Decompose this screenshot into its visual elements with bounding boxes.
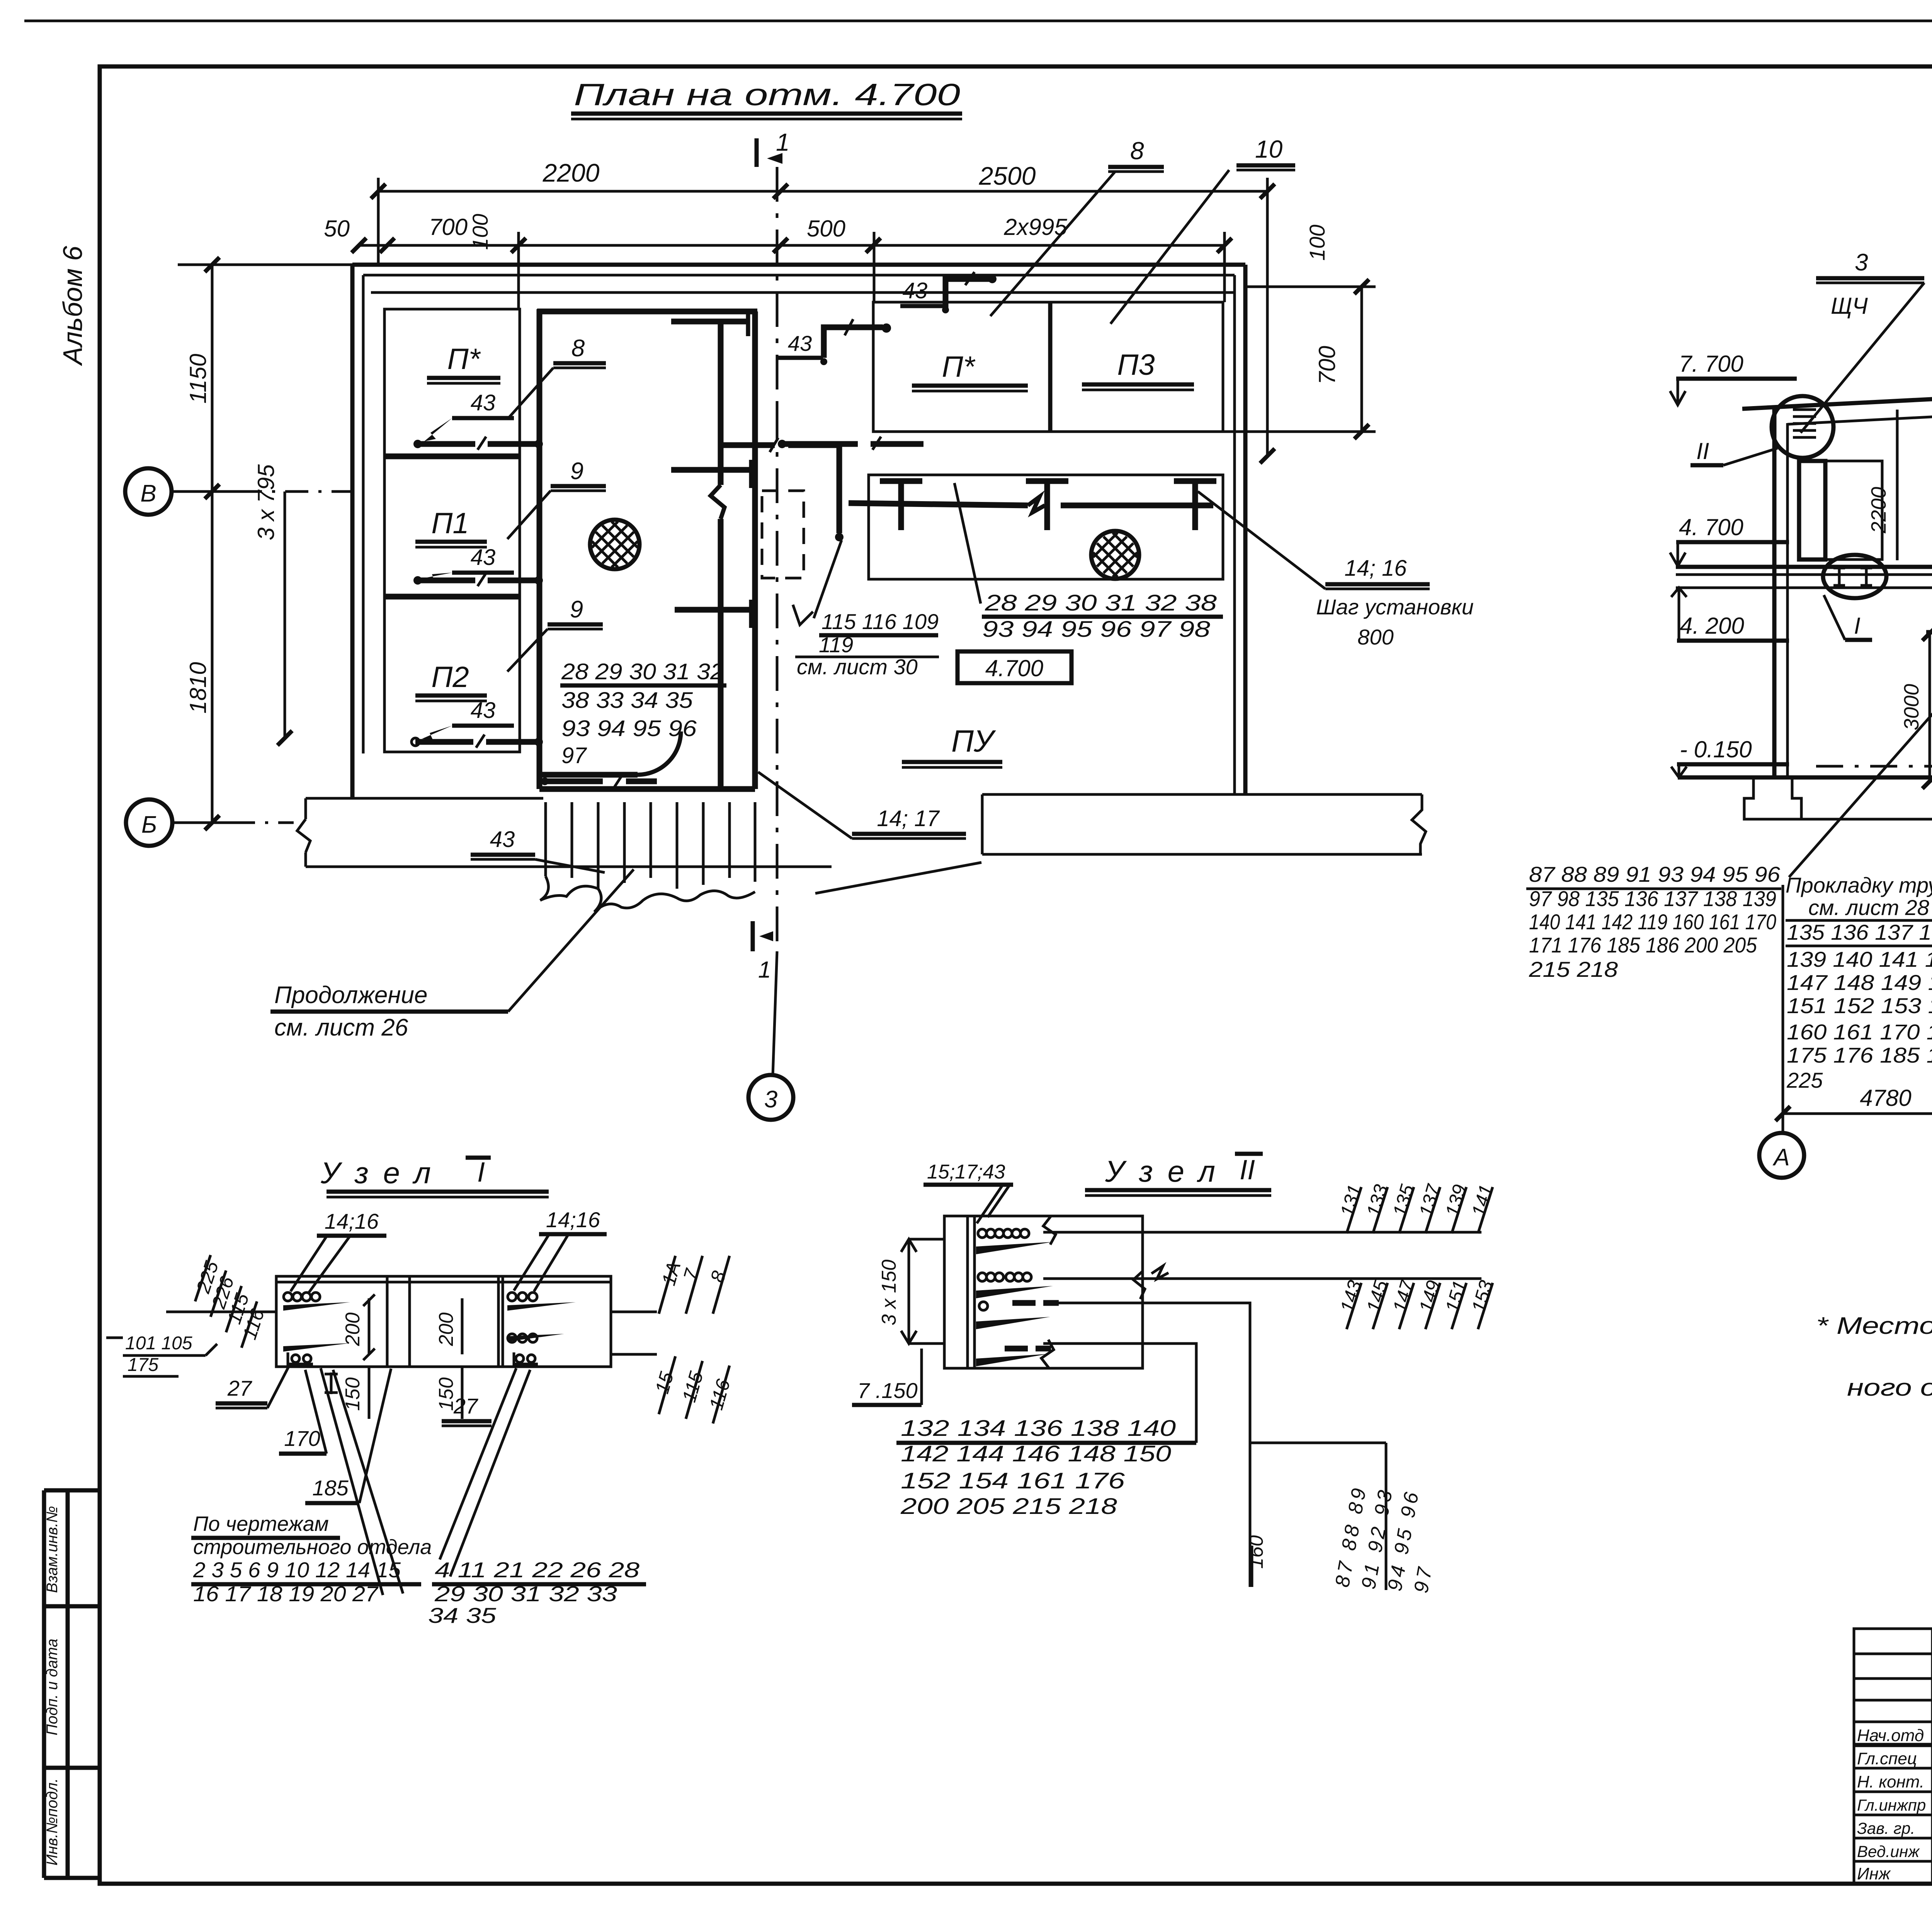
svg-text:строительного отдела: строительного отдела bbox=[193, 1536, 432, 1559]
svg-text:101 105: 101 105 bbox=[125, 1333, 192, 1354]
svg-text:200: 200 bbox=[342, 1313, 364, 1347]
svg-text:2200: 2200 bbox=[543, 158, 600, 187]
svg-text:43: 43 bbox=[471, 545, 496, 570]
svg-text:Взам.инв.№: Взам.инв.№ bbox=[44, 1506, 61, 1593]
svg-text:133: 133 bbox=[1362, 1182, 1392, 1219]
svg-text:см. лист 28: см. лист 28 bbox=[1808, 895, 1929, 920]
svg-text:140 141 142 119 160 161 17: 140 141 142 119 160 161 170 bbox=[1529, 910, 1776, 934]
svg-text:215 218: 215 218 bbox=[1529, 957, 1618, 981]
svg-text:2500: 2500 bbox=[979, 162, 1036, 190]
svg-text:Продолжение: Продолжение bbox=[274, 982, 427, 1009]
svg-text:П*: П* bbox=[447, 343, 481, 376]
svg-text:28 29 30 31 32 38: 28 29 30 31 32 38 bbox=[985, 590, 1217, 616]
svg-text:А: А bbox=[1772, 1144, 1789, 1171]
svg-text:8: 8 bbox=[1130, 137, 1144, 165]
svg-text:3: 3 bbox=[764, 1086, 777, 1113]
svg-text:ного оборудования (выпуски: ного оборудования (выпуски 1004, 1006, 1… bbox=[1847, 1374, 1932, 1401]
svg-text:7. 700: 7. 700 bbox=[1679, 351, 1743, 377]
svg-text:34 35: 34 35 bbox=[428, 1603, 497, 1628]
svg-text:Подп. и дата: Подп. и дата bbox=[44, 1639, 61, 1735]
svg-text:П1: П1 bbox=[431, 507, 469, 540]
svg-text:Узел: Узел bbox=[1105, 1154, 1215, 1188]
svg-text:II: II bbox=[1240, 1155, 1255, 1185]
svg-text:147: 147 bbox=[1389, 1277, 1418, 1315]
svg-text:43: 43 bbox=[903, 278, 928, 303]
svg-text:800: 800 bbox=[1357, 625, 1393, 649]
svg-text:Гл.спец: Гл.спец bbox=[1857, 1749, 1917, 1768]
svg-text:Узел: Узел bbox=[320, 1156, 431, 1190]
svg-text:100: 100 bbox=[468, 214, 492, 250]
svg-text:137: 137 bbox=[1415, 1181, 1445, 1219]
svg-text:14;16: 14;16 bbox=[546, 1207, 600, 1232]
svg-text:Гл.инжпр: Гл.инжпр bbox=[1857, 1796, 1926, 1814]
svg-text:Шаг установки: Шаг установки bbox=[1316, 595, 1474, 619]
svg-text:119: 119 bbox=[819, 633, 853, 657]
svg-text:142 144 146 148 150: 142 144 146 148 150 bbox=[901, 1441, 1171, 1466]
svg-text:97: 97 bbox=[561, 743, 587, 768]
svg-text:см. лист 26: см. лист 26 bbox=[274, 1014, 408, 1041]
svg-text:50: 50 bbox=[324, 216, 350, 241]
svg-text:3 x 795: 3 x 795 bbox=[253, 464, 279, 540]
svg-text:139 140 141 142: 139 140 141 142 bbox=[1787, 947, 1932, 971]
svg-text:132 134 136 138 140: 132 134 136 138 140 bbox=[901, 1416, 1176, 1441]
svg-text:4.700: 4.700 bbox=[985, 655, 1043, 681]
svg-text:Н. конт.: Н. конт. bbox=[1857, 1772, 1924, 1791]
svg-text:175 176 185 186: 175 176 185 186 bbox=[1787, 1043, 1932, 1067]
svg-text:1150: 1150 bbox=[185, 354, 211, 403]
svg-text:27: 27 bbox=[453, 1394, 478, 1418]
svg-text:Зав. гр.: Зав. гр. bbox=[1857, 1819, 1915, 1837]
svg-text:93 94 95 96: 93 94 95 96 bbox=[561, 716, 697, 741]
svg-text:43: 43 bbox=[471, 390, 496, 415]
svg-text:14; 17: 14; 17 bbox=[877, 806, 940, 831]
svg-text:ЩЧ: ЩЧ bbox=[1831, 293, 1868, 319]
svg-text:38 33 34 35: 38 33 34 35 bbox=[561, 688, 693, 713]
svg-text:15;17;43: 15;17;43 bbox=[927, 1161, 1005, 1183]
svg-text:115 116 109: 115 116 109 bbox=[821, 609, 939, 634]
svg-text:115: 115 bbox=[678, 1369, 707, 1405]
svg-text:1810: 1810 bbox=[185, 662, 211, 713]
svg-text:160: 160 bbox=[1245, 1535, 1267, 1569]
svg-text:43: 43 bbox=[490, 827, 515, 852]
svg-text:9: 9 bbox=[570, 596, 583, 623]
svg-text:135: 135 bbox=[1389, 1182, 1418, 1219]
svg-text:700: 700 bbox=[429, 214, 468, 240]
svg-text:8: 8 bbox=[571, 335, 585, 362]
svg-text:П*: П* bbox=[942, 350, 976, 383]
svg-text:I: I bbox=[477, 1157, 485, 1188]
svg-text:175: 175 bbox=[128, 1355, 158, 1375]
svg-text:149: 149 bbox=[1415, 1278, 1445, 1315]
svg-text:43: 43 bbox=[471, 698, 496, 723]
svg-text:152 154 161 176: 152 154 161 176 bbox=[901, 1468, 1125, 1493]
svg-text:см. лист 30: см. лист 30 bbox=[797, 655, 918, 679]
svg-text:147 148 149 150: 147 148 149 150 bbox=[1787, 970, 1932, 995]
svg-text:153: 153 bbox=[1468, 1278, 1497, 1315]
svg-text:4 11 21 22 26 28: 4 11 21 22 26 28 bbox=[435, 1558, 639, 1582]
svg-text:43: 43 bbox=[788, 331, 812, 355]
svg-text:Прокладку труб: Прокладку труб bbox=[1786, 873, 1932, 897]
svg-text:3 x 150: 3 x 150 bbox=[878, 1260, 900, 1326]
svg-text:П2: П2 bbox=[431, 661, 469, 694]
svg-text:200: 200 bbox=[435, 1313, 457, 1347]
svg-text:500: 500 bbox=[807, 216, 845, 241]
svg-text:4. 200: 4. 200 bbox=[1680, 613, 1744, 639]
svg-text:По чертежам: По чертежам bbox=[193, 1512, 329, 1536]
svg-text:Инж: Инж bbox=[1857, 1864, 1891, 1883]
svg-text:93 94 95 96 97 98: 93 94 95 96 97 98 bbox=[982, 617, 1210, 642]
svg-text:14;16: 14;16 bbox=[325, 1209, 379, 1233]
svg-text:2200: 2200 bbox=[1867, 487, 1890, 534]
svg-text:151: 151 bbox=[1441, 1278, 1471, 1315]
svg-text:* Место установки пультов н: * Место установки пультов нестандартизир… bbox=[1816, 1313, 1932, 1339]
svg-text:Альбом 6: Альбом 6 bbox=[58, 246, 88, 366]
svg-text:160 161 170 171: 160 161 170 171 bbox=[1787, 1020, 1932, 1044]
svg-text:I: I bbox=[1854, 613, 1861, 639]
svg-text:2 3 5 6 9 10 12 14 15: 2 3 5 6 9 10 12 14 15 bbox=[193, 1558, 401, 1582]
svg-text:- 0.150: - 0.150 bbox=[1680, 736, 1752, 762]
svg-text:135 136 137 138: 135 136 137 138 bbox=[1787, 920, 1932, 944]
svg-text:28 29 30 31 32: 28 29 30 31 32 bbox=[561, 659, 724, 684]
svg-text:87 88 89 91 93 94 95 96: 87 88 89 91 93 94 95 96 bbox=[1529, 862, 1781, 886]
svg-text:139: 139 bbox=[1441, 1182, 1471, 1219]
svg-text:16 17 18 19 20 27: 16 17 18 19 20 27 bbox=[193, 1582, 379, 1606]
svg-text:171 176 185 186 200 205: 171 176 185 186 200 205 bbox=[1529, 933, 1757, 957]
svg-text:145: 145 bbox=[1362, 1278, 1392, 1315]
svg-text:9: 9 bbox=[570, 458, 583, 485]
svg-text:185: 185 bbox=[312, 1476, 349, 1500]
svg-text:14; 16: 14; 16 bbox=[1344, 556, 1407, 581]
svg-text:27: 27 bbox=[227, 1376, 252, 1400]
svg-text:Нач.отд: Нач.отд bbox=[1857, 1726, 1924, 1745]
svg-text:3000: 3000 bbox=[1900, 684, 1923, 730]
svg-text:П3: П3 bbox=[1117, 349, 1155, 381]
svg-text:15: 15 bbox=[651, 1369, 678, 1396]
svg-text:ПУ: ПУ bbox=[951, 724, 996, 758]
svg-text:Инв.№подл.: Инв.№подл. bbox=[44, 1778, 61, 1866]
svg-text:2250: 2250 bbox=[1929, 699, 1932, 746]
svg-text:97: 97 bbox=[1410, 1563, 1437, 1595]
svg-text:7 .150: 7 .150 bbox=[857, 1378, 918, 1403]
svg-text:97 98 135 136 137 138 139: 97 98 135 136 137 138 139 bbox=[1529, 886, 1776, 911]
svg-text:II: II bbox=[1696, 438, 1709, 464]
svg-text:200 205 215 218: 200 205 215 218 bbox=[900, 1494, 1117, 1519]
svg-text:143: 143 bbox=[1336, 1278, 1366, 1315]
svg-text:151 152 153 154: 151 152 153 154 bbox=[1787, 993, 1932, 1018]
svg-text:1: 1 bbox=[758, 957, 771, 983]
svg-text:141: 141 bbox=[1468, 1182, 1497, 1219]
svg-text:Б: Б bbox=[141, 811, 157, 838]
svg-text:170: 170 bbox=[284, 1426, 320, 1451]
svg-text:10: 10 bbox=[1255, 135, 1283, 163]
svg-text:4. 700: 4. 700 bbox=[1679, 514, 1743, 540]
svg-text:131: 131 bbox=[1336, 1182, 1366, 1219]
svg-text:Вед.инж: Вед.инж bbox=[1857, 1842, 1920, 1861]
svg-text:3: 3 bbox=[1855, 249, 1868, 276]
svg-text:1: 1 bbox=[776, 128, 790, 156]
svg-text:План на отм. 4.700: План на отм. 4.700 bbox=[574, 77, 960, 112]
svg-text:100: 100 bbox=[1305, 224, 1329, 260]
svg-text:В: В bbox=[140, 480, 156, 507]
svg-text:225: 225 bbox=[1786, 1068, 1823, 1092]
svg-text:4780: 4780 bbox=[1860, 1085, 1911, 1111]
svg-text:116: 116 bbox=[705, 1377, 735, 1412]
svg-text:700: 700 bbox=[1314, 346, 1340, 384]
svg-text:29 30 31 32 33: 29 30 31 32 33 bbox=[434, 1582, 617, 1606]
